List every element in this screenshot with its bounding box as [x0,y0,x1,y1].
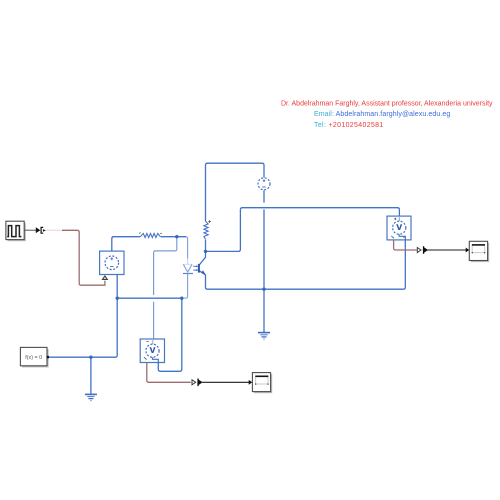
svg-text:Dr. Abdelrahman Farghly, Assis: Dr. Abdelrahman Farghly, Assistant profe… [281,100,493,107]
svg-text:f(x) = 0: f(x) = 0 [25,355,42,361]
svg-text:Email: Abdelrahman.farghly@ale: Email: Abdelrahman.farghly@alexu.edu.eg [314,111,450,118]
svg-text:Tel: +201025402581: Tel: +201025402581 [314,122,384,129]
